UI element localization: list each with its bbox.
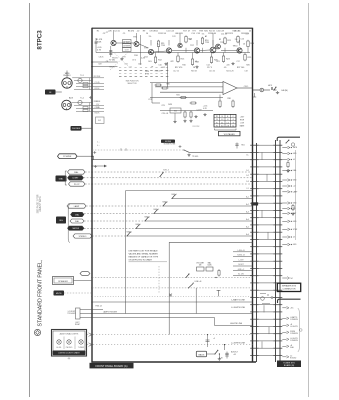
phono jack J2: [62, 100, 72, 110]
svg-text:AUX: AUX: [69, 96, 74, 99]
pill g2a: [67, 204, 86, 208]
stub ground A: [286, 170, 289, 173]
svg-text:L-OUT: L-OUT: [238, 259, 243, 261]
svg-text:4.7K: 4.7K: [145, 73, 150, 75]
svg-text:B+: B+: [247, 154, 249, 156]
svg-text:ADJUST DATA: ADJUST DATA: [39, 196, 42, 212]
svg-text:C11: C11: [166, 31, 169, 33]
transistor TR3: [148, 49, 153, 54]
svg-text:DIAL: DIAL: [293, 169, 297, 172]
main frame top edge: [92, 27, 253, 29]
stub ground A2: [291, 213, 294, 216]
right stub B6 +B: [282, 345, 294, 349]
staircase switch SW1-2: [162, 202, 166, 207]
switch wiper arc 1: [110, 51, 129, 70]
resistor RT1: [157, 40, 159, 48]
svg-text:LAMPS TRIGGER: LAMPS TRIGGER: [103, 311, 118, 314]
table under bracket: [215, 129, 237, 131]
top right feeder corner wire: [277, 137, 300, 141]
svg-text:FRONT PANEL BOARD (A): FRONT PANEL BOARD (A): [96, 364, 128, 368]
svg-text:METER: METER: [72, 228, 79, 230]
svg-text:CONNECTOR: CONNECTOR: [283, 288, 296, 290]
svg-text:C5: C5: [123, 33, 125, 35]
staircase wire y236: [127, 235, 253, 237]
output jack CAL: [260, 88, 264, 92]
wire seg2: [139, 44, 149, 48]
right stub A10: [282, 212, 296, 215]
capacitor CV2: [109, 54, 112, 55]
svg-text:C6: C6: [243, 44, 245, 46]
svg-text:R24 2.2K: R24 2.2K: [226, 71, 234, 73]
svg-text:1W: 1W: [189, 39, 192, 41]
svg-text:4 +: 4 +: [97, 145, 100, 147]
bottom right feeder corner wire: [278, 299, 301, 303]
svg-text:T5: T5: [216, 122, 218, 124]
svg-text:TR7: TR7: [190, 45, 194, 47]
group B right bracket: [298, 308, 300, 352]
triangle amp: [223, 82, 237, 95]
svg-text:R21: R21: [227, 40, 231, 42]
svg-text:L-LIGHTS LINE: L-LIGHTS LINE: [231, 342, 246, 344]
dot bus4: [212, 52, 213, 53]
center strip line 2: [279, 140, 281, 362]
elect cap cluster: [225, 352, 229, 359]
svg-text:T6: T6: [216, 125, 218, 127]
staircase wire y228.5: [136, 228, 253, 230]
dashed wire y287.9: [92, 287, 253, 289]
transistor TR7: [210, 47, 216, 53]
dashed wire y177: [84, 177, 253, 179]
resistor RB6: [244, 53, 246, 61]
wire seg1: [116, 42, 134, 44]
svg-text:R16: R16: [182, 65, 185, 67]
vert x196 drop: [195, 288, 197, 314]
svg-text:.05: .05: [224, 67, 227, 69]
svg-text:PHONES: PHONES: [72, 128, 81, 130]
wire in tag: [56, 91, 62, 93]
wire y325.5: [215, 325, 253, 327]
bottom label bar right: [277, 361, 301, 368]
right stub A11: [282, 220, 297, 223]
left frame pin dots: [91, 155, 93, 345]
vert stub col x96: [95, 38, 97, 53]
svg-text:.6: .6: [227, 119, 228, 121]
svg-text:TRIG +B: TRIG +B: [95, 306, 102, 308]
mid box vertical x125.5: [125, 191, 127, 314]
strip feeder row 3: [233, 260, 253, 262]
input network 2: [72, 100, 105, 111]
function switch labels row2: [119, 73, 168, 75]
wire mid y86.9: [155, 86, 223, 88]
black tag IN: [45, 90, 56, 95]
cassette lamp L1: [57, 340, 61, 344]
strip cross wires: [259, 145, 273, 355]
wire arrow y166: [92, 165, 104, 167]
cassette box outer: [52, 330, 87, 357]
svg-text:C17 5: C17 5: [207, 67, 212, 69]
right stub B4 DRUM: [282, 331, 298, 335]
svg-text:DIAL: DIAL: [75, 213, 79, 216]
dot bus2: [168, 52, 169, 53]
svg-text:1.5K: 1.5K: [162, 33, 167, 35]
pill POWER: [58, 154, 78, 159]
wire triangle out: [237, 87, 253, 89]
svg-text:SPEAKER SYS: SPEAKER SYS: [282, 285, 297, 288]
bass switch: [214, 350, 218, 355]
vertical x110.8: [110, 46, 112, 57]
wire output ext: [253, 89, 260, 91]
resistor RB1: [154, 56, 156, 64]
dotted wire y344.6: [87, 344, 253, 346]
svg-text:C1 .05: C1 .05: [95, 82, 100, 84]
svg-text:LOW: LOW: [240, 123, 244, 125]
resistor RT3: [201, 37, 203, 45]
transistor TR6: [194, 48, 199, 53]
group A right bracket: [294, 150, 296, 240]
dashed wire y150: [92, 149, 184, 151]
svg-text:10: 10: [146, 33, 148, 35]
input network 1: [72, 78, 104, 90]
resistor RB3: [191, 58, 193, 66]
plus mark y152: [93, 151, 96, 154]
wire spkr: [74, 280, 93, 282]
svg-text:COMMON: COMMON: [290, 340, 299, 342]
svg-text:B3: B3: [219, 39, 221, 41]
svg-text:25: 25: [249, 31, 251, 33]
svg-text:SW1-1: SW1-1: [171, 194, 176, 196]
svg-text:D-2: D-2: [246, 175, 249, 177]
svg-text:C3: C3: [103, 33, 105, 35]
svg-text:R13: R13: [144, 57, 147, 59]
right stub A8: [282, 202, 297, 205]
legend table box: [214, 114, 236, 127]
pin mark y344: [89, 343, 93, 347]
margin label 8TPC3: [36, 30, 43, 50]
resistor RM5: [219, 100, 221, 108]
svg-text:DRIVER: DRIVER: [123, 46, 130, 48]
svg-text:R7 680: R7 680: [109, 60, 115, 62]
legend voltages box: [219, 131, 241, 135]
svg-text:PILOT: PILOT: [74, 184, 81, 186]
cassette divider 1: [63, 337, 65, 350]
center strip line 1: [275, 140, 277, 362]
volume balance parts: [196, 261, 213, 271]
staircase wire y221: [145, 220, 253, 222]
svg-text:R-SIG +B: R-SIG +B: [237, 255, 245, 257]
wire vol: [92, 277, 253, 279]
svg-text:8TPC3: 8TPC3: [36, 30, 43, 50]
svg-text:DIAL: DIAL: [75, 220, 79, 223]
dashed arc wiper: [113, 52, 129, 67]
tee mark x218: [217, 290, 221, 296]
right stub A1: [282, 146, 298, 149]
power jog: [92, 156, 94, 160]
svg-text:1.5: 1.5: [227, 122, 229, 124]
right stub A12: [282, 228, 298, 231]
ground topleft: [120, 58, 123, 61]
svg-text:VALUES AND SERIAL NUMBER: VALUES AND SERIAL NUMBER: [129, 253, 159, 256]
svg-text:R17: R17: [183, 31, 187, 33]
group2 bracket: [68, 205, 70, 243]
strip feeder row 6: [233, 274, 253, 276]
svg-text:TR8: TR8: [205, 42, 209, 44]
node power: [91, 156, 93, 158]
wire left top b: [92, 66, 118, 68]
strip feeder row 1: [233, 251, 253, 253]
svg-text:C-1: C-1: [246, 188, 249, 190]
ladder resistor RL2: [190, 111, 192, 119]
cassette black bar: [53, 351, 86, 356]
svg-text:R20: R20: [204, 31, 208, 33]
node lt a: [91, 61, 93, 63]
diamond mark near corner: [271, 296, 274, 299]
right stub B3 +B: [282, 324, 298, 328]
vol dot: [215, 277, 216, 278]
svg-text:R17 470: R17 470: [175, 67, 182, 69]
svg-text:220: 220: [227, 65, 230, 67]
left strip line 2: [256, 143, 258, 362]
wire seg6: [221, 50, 237, 52]
svg-text:R25: R25: [245, 33, 249, 35]
svg-text:C21: C21: [148, 99, 152, 101]
stub row y278: [282, 277, 293, 280]
bass dot: [219, 353, 220, 354]
svg-text:C4 .05: C4 .05: [114, 31, 120, 33]
svg-text:C14: C14: [206, 65, 209, 67]
svg-text:STEREO: STEREO: [79, 236, 87, 238]
right cluster switch: [285, 140, 289, 144]
svg-text:STER: STER: [293, 229, 298, 231]
function switch labels row: [119, 66, 168, 68]
wire y236 left: [92, 235, 127, 237]
bass ground: [218, 358, 221, 361]
svg-text:TR9: TR9: [220, 42, 224, 44]
center strip pins: [273, 145, 282, 355]
phono jack J1: [62, 78, 72, 88]
ladder ground 2: [189, 120, 192, 123]
svg-text:R15: R15: [179, 33, 183, 35]
svg-text:LAMP: LAMP: [74, 205, 80, 208]
volume switch: [185, 273, 189, 278]
resistor RB5: [222, 55, 224, 63]
stub resistor A2: [292, 204, 294, 211]
svg-text:C9 5: C9 5: [132, 60, 136, 62]
svg-text:R23: R23: [229, 33, 233, 35]
svg-text:ADDITIONAL LIGHTS: ADDITIONAL LIGHTS: [60, 333, 79, 336]
vert links top: [114, 30, 246, 58]
bottom label bar left: [90, 363, 134, 369]
switch SW2: [159, 172, 163, 177]
ground row1 g3: [195, 66, 198, 69]
svg-text:C15 50: C15 50: [209, 71, 215, 73]
dark pin marker: [251, 202, 258, 205]
black tag PHONES: [71, 126, 82, 131]
switch ticks row A: [119, 70, 168, 72]
note underline: [129, 261, 168, 263]
mid vertical x152: [151, 83, 153, 103]
margin circled symbol: [34, 329, 40, 335]
svg-text:RANGES OF CAPACITOR TYPE: RANGES OF CAPACITOR TYPE: [129, 255, 159, 258]
svg-text:R26: R26: [246, 65, 249, 67]
svg-text:POWER: POWER: [63, 156, 72, 158]
svg-text:1.2: 1.2: [221, 119, 223, 121]
staircase switch SW1-4: [144, 217, 148, 222]
svg-text:SPEAKER: SPEAKER: [58, 280, 68, 283]
black tag SIG: [56, 217, 66, 224]
right stub B2 L-WATTS: [282, 316, 298, 321]
wire mid y97.5: [150, 97, 223, 99]
svg-text:SW: SW: [98, 120, 101, 122]
svg-text:C8 25: C8 25: [99, 57, 104, 59]
black tag DIAL: [56, 176, 67, 182]
transistor TR5: [178, 43, 182, 47]
svg-text:47: 47: [188, 31, 190, 33]
svg-text:6: 6: [233, 119, 234, 121]
pill g1c: [69, 182, 86, 186]
dotted wire y296.4: [92, 295, 253, 297]
dash line marks y149.5: [121, 148, 126, 150]
svg-text:(A): (A): [68, 357, 71, 360]
svg-text:NOISE FILTER: NOISE FILTER: [164, 144, 176, 146]
svg-text:10%: 10%: [138, 64, 142, 66]
margin note text: [37, 194, 43, 213]
bracket g1: [65, 171, 67, 185]
plus mark y166b: [94, 165, 97, 168]
dot bus3: [196, 52, 197, 53]
noise cap right: [235, 143, 238, 149]
svg-text:R-OUT: R-OUT: [238, 264, 243, 266]
svg-text:TP GND: TP GND: [192, 156, 199, 158]
table cells text: [216, 116, 235, 127]
strip feeder row 2: [233, 256, 253, 258]
strip feeder row 4: [233, 265, 253, 267]
plus mark noise: [179, 145, 182, 148]
svg-text:L-LIGHTS: L-LIGHTS: [290, 326, 298, 328]
ground row1 g2: [164, 63, 167, 66]
right stub A13: [282, 236, 295, 239]
resistor RT2: [185, 35, 187, 43]
svg-text:4.7K: 4.7K: [97, 50, 102, 52]
transistor TR2: [134, 42, 139, 47]
svg-text:R1 220K: R1 220K: [94, 76, 101, 78]
svg-text:GND +C: GND +C: [238, 269, 245, 271]
stub resistor A: [287, 161, 289, 168]
svg-text:SW1-4: SW1-4: [144, 217, 149, 219]
svg-text:.01: .01: [195, 61, 198, 63]
row1 bus wire: [96, 52, 250, 54]
main frame right edge strip line 1: [252, 28, 254, 362]
dashed left y228.5: [84, 228, 136, 230]
resistor RT4: [224, 37, 226, 45]
dashed left y213.5: [84, 213, 154, 215]
second box top edge: [169, 241, 252, 243]
svg-text:D-1: D-1: [246, 170, 249, 172]
bracket pin wire 2: [80, 313, 253, 315]
x mark y295: [169, 294, 172, 297]
svg-text:SW1-2: SW1-2: [162, 202, 167, 204]
svg-text:C14 .05: C14 .05: [221, 34, 227, 36]
svg-text:C23: C23: [161, 105, 164, 107]
svg-text:SELECTOR: SELECTOR: [127, 83, 137, 85]
svg-text:R6 470: R6 470: [128, 31, 134, 33]
right stub A5: [282, 179, 297, 182]
main frame bottom edge: [92, 361, 257, 363]
svg-text:R12: R12: [158, 60, 162, 62]
dotted wire y334.6: [87, 334, 253, 336]
resistor RM1: [155, 84, 162, 86]
svg-text:5%: 5%: [235, 39, 238, 41]
node lt b: [91, 66, 93, 68]
svg-text:8: 8: [233, 122, 234, 124]
cassette lamp L2: [67, 340, 71, 344]
resistor RM3: [180, 97, 187, 99]
svg-text:+SGT: +SGT: [240, 116, 244, 118]
wire seg3: [154, 51, 167, 52]
pill g2c: [70, 219, 84, 223]
resistor RM2: [161, 87, 168, 89]
pill g1b: [68, 176, 84, 181]
svg-text:C15: C15: [240, 39, 244, 41]
wire output b: [264, 89, 270, 91]
bass vert: [218, 354, 220, 358]
dashed left y221: [84, 220, 145, 222]
strip jogs: [262, 152, 269, 348]
right stub A4: [282, 169, 296, 172]
svg-text:C30 5: C30 5: [244, 86, 249, 88]
extra top stubs: [151, 40, 248, 53]
bracket pin wire 1: [80, 309, 103, 311]
svg-text:A2: A2: [205, 35, 207, 38]
svg-text:COMMON: COMMON: [290, 333, 299, 335]
plus marks left: [89, 96, 92, 99]
page left border line: [29, 3, 31, 397]
wire phones: [82, 127, 93, 129]
svg-text:LIGHTS LINE: LIGHTS LINE: [230, 323, 243, 325]
svg-text:LINE +B: LINE +B: [195, 281, 203, 283]
svg-text:SEE PAGE 3 FOR: SEE PAGE 3 FOR: [37, 194, 40, 213]
right cluster circle: [291, 143, 294, 146]
svg-text:R21: R21: [216, 61, 219, 63]
wire mute dashed: [64, 292, 92, 294]
svg-text:C18: C18: [244, 71, 247, 73]
wire seg5: [200, 49, 211, 52]
svg-text:2.8: 2.8: [227, 125, 229, 127]
cassette divider 2: [74, 337, 76, 350]
svg-text:SIG: SIG: [59, 220, 63, 222]
vol resistor: [218, 269, 220, 276]
svg-text:R31: R31: [176, 95, 179, 97]
svg-text:TRIGGER: TRIGGER: [67, 313, 76, 315]
wire power: [77, 155, 92, 157]
svg-text:R15: R15: [181, 59, 185, 61]
svg-text:B+: B+: [157, 44, 159, 46]
resistor RM4: [190, 102, 197, 104]
svg-text:SW1-3: SW1-3: [153, 209, 158, 211]
svg-text:TP3: TP3: [192, 31, 195, 33]
ladder ground 1: [183, 120, 186, 123]
dashed left y206: [86, 205, 163, 207]
ground mid 1: [173, 120, 176, 123]
svg-text:C20 .01: C20 .01: [162, 113, 169, 115]
svg-text:L-SIG +B: L-SIG +B: [238, 250, 246, 252]
svg-text:+45: +45: [233, 354, 236, 356]
jack J1 top stub: [66, 71, 68, 78]
svg-text:CAL(M): CAL(M): [281, 89, 288, 92]
left strip pins: [250, 145, 259, 355]
svg-text:PHONO: PHONO: [63, 75, 71, 77]
pill g2d: [68, 226, 85, 230]
bottom mid cap cluster: [206, 334, 216, 347]
